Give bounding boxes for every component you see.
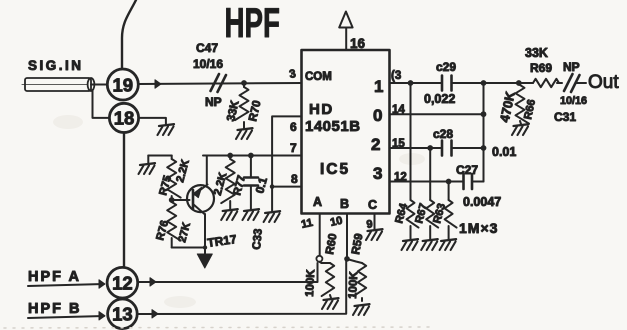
svg-text:C: C xyxy=(368,198,377,212)
svg-text:C27: C27 xyxy=(456,163,478,177)
svg-text:1: 1 xyxy=(374,77,383,96)
capacitor C33 xyxy=(250,156,252,210)
wire base xyxy=(172,199,190,201)
svg-text:0.0047: 0.0047 xyxy=(463,195,501,209)
capacitor C27 xyxy=(464,174,473,189)
wire coax shield to pin 18 xyxy=(93,90,110,118)
ground under R70 xyxy=(238,128,253,130)
svg-text:9: 9 xyxy=(366,218,374,231)
svg-text:12: 12 xyxy=(112,273,133,294)
svg-text:33K: 33K xyxy=(525,46,548,60)
wire C31 to Out xyxy=(576,82,586,84)
wire R69 to C31 xyxy=(557,82,562,84)
svg-text:NP: NP xyxy=(563,60,580,74)
ground at pin 18 xyxy=(159,124,174,126)
resistor R70 xyxy=(243,83,245,87)
arrow HPF B in xyxy=(99,312,105,320)
svg-text:TR17: TR17 xyxy=(206,232,237,250)
ground under R60 xyxy=(324,298,339,300)
svg-text:SIG.IN: SIG.IN xyxy=(28,58,84,73)
IC supply pin 16 wire xyxy=(345,28,347,50)
resistor R69 xyxy=(533,79,559,87)
svg-text:C33: C33 xyxy=(251,228,265,250)
svg-text:8: 8 xyxy=(291,172,298,186)
svg-text:33K: 33K xyxy=(225,99,242,123)
node C47/R70 xyxy=(241,80,247,86)
wire VEE rail (pin 7) xyxy=(203,155,302,157)
resistor R60 xyxy=(319,262,321,263)
wire pin 8 stub xyxy=(272,186,301,188)
svg-text:COM: COM xyxy=(305,71,332,83)
connector pin 13 xyxy=(108,299,138,329)
wire pin 12 out xyxy=(390,181,464,183)
svg-text:NP: NP xyxy=(205,95,222,109)
supply arrow pin 16 xyxy=(339,12,352,28)
ground pins 6/8 xyxy=(265,211,280,213)
svg-text:C31: C31 xyxy=(554,110,576,124)
svg-text:HPF B: HPF B xyxy=(28,301,82,317)
wire bus to 470K node xyxy=(484,82,519,84)
ground left of R75 xyxy=(140,163,155,165)
svg-text:19: 19 xyxy=(113,75,134,96)
stub left end to ground xyxy=(147,156,149,164)
svg-text:16: 16 xyxy=(350,36,366,51)
svg-text:IC5: IC5 xyxy=(320,161,350,178)
svg-text:HPF A: HPF A xyxy=(28,269,81,285)
negative supply arrow xyxy=(197,254,212,268)
node collector junction xyxy=(203,245,207,249)
resistor R64 xyxy=(410,83,412,200)
resistor R67 xyxy=(429,148,431,200)
wire connector stem 18 to 12 xyxy=(123,133,125,268)
svg-text:6: 6 xyxy=(290,120,297,134)
node pin8 junction xyxy=(270,184,275,189)
node 470K junction xyxy=(516,80,522,86)
ground under R64 xyxy=(403,239,418,241)
svg-text:R70: R70 xyxy=(247,99,263,122)
node ring pin11/R60 xyxy=(316,256,322,262)
output bus vertical xyxy=(483,83,485,182)
connector pin 18 xyxy=(109,103,138,132)
resistor R77 xyxy=(229,156,231,160)
svg-text:100K: 100K xyxy=(347,270,360,299)
svg-text:(3: (3 xyxy=(391,70,401,82)
svg-text:0.01: 0.01 xyxy=(492,145,516,159)
node pin10/R59 xyxy=(344,256,350,262)
resistor R76 xyxy=(167,202,181,241)
svg-text:27K: 27K xyxy=(176,221,193,244)
connector pin 12 xyxy=(107,267,138,298)
wire C27 to bus xyxy=(472,181,484,183)
svg-text:2: 2 xyxy=(371,135,380,154)
wire R75 top to ground segment xyxy=(148,155,171,157)
wire pin 11 lead xyxy=(319,214,321,256)
svg-text:0: 0 xyxy=(373,106,382,125)
node C33 top xyxy=(248,153,254,159)
wire pin 18 to ground xyxy=(139,118,166,124)
node R77 top xyxy=(227,153,233,159)
wire pin 9 lead xyxy=(374,214,376,231)
ground under R67 xyxy=(423,239,438,241)
wire C28 to bus xyxy=(452,147,484,149)
scan smudge bottom xyxy=(4,327,430,328)
wire TR17 emitter up xyxy=(206,156,208,186)
node base divider xyxy=(169,197,175,203)
capacitor C31 (NP) xyxy=(564,74,580,92)
svg-text:470K: 470K xyxy=(497,90,518,124)
capacitor C29 xyxy=(442,76,452,91)
resistor R75 xyxy=(171,156,173,160)
ground under R63 xyxy=(441,239,456,241)
wire pin 6 stub xyxy=(272,116,301,212)
node pin14/bus xyxy=(481,111,487,117)
svg-text:Out: Out xyxy=(588,72,619,93)
svg-text:A: A xyxy=(313,195,322,209)
node bus top xyxy=(481,80,487,86)
svg-text:13: 13 xyxy=(112,304,133,325)
svg-text:3: 3 xyxy=(373,164,382,183)
svg-text:10: 10 xyxy=(329,215,343,229)
IC U/IC5 box xyxy=(302,50,390,214)
arrow HPF B after 13 xyxy=(152,310,158,318)
svg-text:c28: c28 xyxy=(433,127,453,141)
svg-text:R63: R63 xyxy=(431,202,448,225)
ground under C33 xyxy=(244,209,259,211)
ground under 470K xyxy=(514,124,529,126)
arrow HPF A in xyxy=(99,280,105,288)
arrow HPF A after 12 xyxy=(150,278,156,286)
svg-text:R75: R75 xyxy=(157,174,174,197)
ground under pin 9 xyxy=(368,229,383,231)
svg-text:3: 3 xyxy=(288,68,296,81)
wire pin 14 out xyxy=(390,113,484,115)
svg-text:B: B xyxy=(340,197,349,211)
resistor R59 xyxy=(347,259,362,263)
svg-text:0,022: 0,022 xyxy=(424,92,455,106)
svg-text:R60: R60 xyxy=(324,233,339,256)
wire R76 to collector xyxy=(172,247,205,249)
wire connector stem top xyxy=(122,0,136,69)
resistor R63 xyxy=(448,182,450,201)
svg-text:2.2K: 2.2K xyxy=(212,171,230,197)
capacitor C47 (NP) xyxy=(211,74,227,92)
wire node to R69 xyxy=(519,82,533,84)
wire pin 13 out xyxy=(390,82,443,84)
svg-text:C47: C47 xyxy=(196,41,218,55)
svg-text:HD: HD xyxy=(309,101,334,118)
coax input sleeve xyxy=(22,78,107,91)
signal direction arrow after 19 xyxy=(155,80,161,88)
wire HPF A in xyxy=(28,284,104,286)
ground under R77 xyxy=(223,209,238,211)
svg-text:R66: R66 xyxy=(522,98,538,120)
svg-text:1M×3: 1M×3 xyxy=(459,220,498,236)
svg-text:7: 7 xyxy=(290,141,297,155)
svg-text:14051B: 14051B xyxy=(305,118,361,135)
ground under R59 xyxy=(355,304,370,306)
wire C29 to bus xyxy=(452,82,484,84)
svg-text:10/16: 10/16 xyxy=(560,95,587,107)
node pin15/R67 xyxy=(427,145,433,151)
svg-text:18: 18 xyxy=(114,108,135,129)
wire HPF A to R60 xyxy=(138,263,318,282)
svg-text:R59: R59 xyxy=(350,233,365,256)
svg-text:R69: R69 xyxy=(530,61,552,75)
svg-text:10/16: 10/16 xyxy=(193,57,223,71)
svg-text:HPF: HPF xyxy=(225,0,280,46)
svg-text:100K: 100K xyxy=(304,268,317,297)
node C28/bus xyxy=(481,145,487,151)
wire signal pin19 to COM xyxy=(138,83,301,84)
node pin13/R64 xyxy=(408,80,414,86)
svg-text:11: 11 xyxy=(300,217,314,231)
wire HPF B to R59 xyxy=(137,259,346,314)
svg-text:R76: R76 xyxy=(154,219,171,242)
wire TR17 collector down xyxy=(204,214,206,254)
node pin12/R63 xyxy=(446,179,452,185)
wire HPF B in xyxy=(28,316,104,318)
resistor R66 470K xyxy=(516,85,530,124)
wire pin 10 lead xyxy=(346,214,348,260)
connector pin 19 xyxy=(107,69,138,100)
transistor TR17 xyxy=(187,185,214,212)
wire pin 15 out xyxy=(390,147,443,149)
svg-text:c29: c29 xyxy=(436,60,456,74)
capacitor C28 xyxy=(442,141,452,156)
